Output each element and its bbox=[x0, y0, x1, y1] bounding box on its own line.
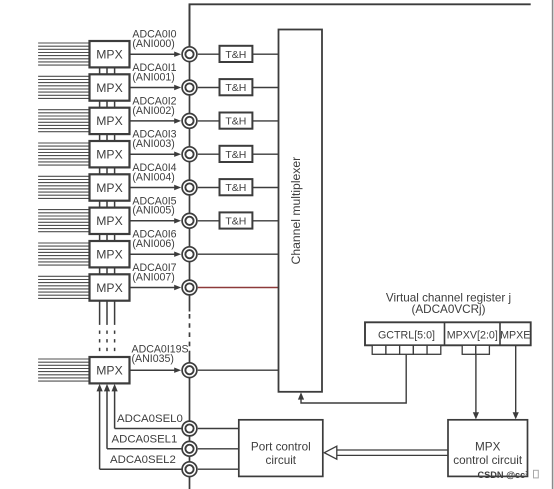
svg-text:MPX: MPX bbox=[96, 148, 122, 162]
label pin ADCA0I19S / ANI035 bbox=[132, 344, 189, 365]
svg-text:MPX: MPX bbox=[96, 181, 122, 195]
svg-text:circuit: circuit bbox=[266, 454, 297, 467]
wire pin ADCA0I19S to channel multiplexer bbox=[198, 369, 279, 371]
input line bundle for MPX 1 (8 analog inputs) bbox=[38, 43, 89, 65]
svg-text:ADCA0SEL0: ADCA0SEL0 bbox=[117, 413, 183, 425]
bus wires between MPX 5 and MPX 6 bbox=[100, 200, 115, 209]
svg-text:Channel multiplexer: Channel multiplexer bbox=[289, 157, 303, 265]
label pin ADCA0I5 / ANI005 bbox=[132, 195, 176, 216]
wire pin ADCA0I3 to T&H bbox=[198, 153, 220, 155]
pin ADCA0I5 (ANI005) bbox=[182, 213, 197, 228]
wire: pin column vertical net (lower section to bottom edge) bbox=[189, 352, 191, 489]
T&H block row 1 bbox=[220, 79, 253, 95]
svg-text:T&H: T&H bbox=[225, 182, 246, 194]
wire pin ADCA0SEL0 to port control circuit bbox=[198, 428, 239, 430]
MPX control circuit block bbox=[448, 420, 528, 477]
bit cells under GCTRL[5:0] bbox=[372, 345, 441, 354]
wire MPX 3 output to pin ADCA0I2 bbox=[129, 118, 182, 123]
MPX block 9 (input ANI035 group) bbox=[90, 357, 130, 383]
svg-text:T&H: T&H bbox=[225, 216, 246, 228]
wire: analog bus from pin column up and to the right edge bbox=[190, 4, 531, 54]
svg-text:MPX: MPX bbox=[96, 281, 122, 295]
wire ADCA0SEL2: from pin left to riser and up into MPX 9 bbox=[97, 384, 182, 469]
svg-text:(ANI035): (ANI035) bbox=[132, 353, 174, 365]
svg-text:MPX: MPX bbox=[96, 114, 122, 128]
T&H block row 2 bbox=[220, 113, 253, 129]
svg-text:(ANI006): (ANI006) bbox=[132, 238, 174, 250]
pin ADCA0I4 (ANI004) bbox=[182, 180, 197, 195]
MPX block 8 (inputs ANI007 group) bbox=[90, 274, 130, 300]
svg-text:(ANI001): (ANI001) bbox=[132, 71, 174, 83]
svg-text:CSDN @cc³: CSDN @cc³ bbox=[478, 470, 529, 480]
bus wires below MPX 8 (solid part) bbox=[100, 300, 115, 325]
wire MPX control circuit to port control circuit (open arrow) bbox=[324, 446, 448, 459]
svg-text:(ADCA0VCRj): (ADCA0VCRj) bbox=[411, 303, 485, 316]
svg-text:MPXV[2:0]: MPXV[2:0] bbox=[447, 329, 498, 341]
wire MPX 9 output to pin ADCA0I19S bbox=[129, 368, 182, 373]
wire pin ADCA0I0 to T&H bbox=[198, 53, 220, 55]
pin ADCA0I6 (ANI006) bbox=[182, 247, 197, 262]
MPX block 2 (inputs ANI001 group) bbox=[90, 74, 130, 100]
pin ADCA0SEL2 bbox=[182, 462, 197, 477]
svg-text:MPX: MPX bbox=[96, 214, 122, 228]
wire pin ADCA0SEL1 to port control circuit bbox=[198, 448, 239, 450]
bus wires between MPX 7 and MPX 8 bbox=[100, 266, 115, 275]
bus wires between MPX 4 and MPX 5 bbox=[100, 166, 115, 175]
wire MPXE to MPX control circuit bbox=[513, 345, 519, 419]
wire pin ADCA0I5 to T&H bbox=[198, 220, 220, 222]
wire ADCA0SEL0: from pin left to riser and up into MPX 9 bbox=[112, 384, 182, 429]
wire MPX 4 output to pin ADCA0I3 bbox=[129, 152, 182, 157]
input line bundle for MPX 2 (8 analog inputs) bbox=[38, 76, 89, 98]
input line bundle for MPX 7 (8 analog inputs) bbox=[38, 243, 89, 265]
svg-text:ADCA0SEL2: ADCA0SEL2 bbox=[110, 454, 176, 466]
channel multiplexer U-mux bbox=[279, 30, 323, 392]
wire MPX 2 output to pin ADCA0I1 bbox=[129, 85, 182, 90]
input line bundle for MPX 9 (8 analog inputs) bbox=[38, 359, 89, 381]
wire ADCA0SEL1: from pin left to riser and up into MPX 9 bbox=[104, 384, 182, 449]
label virtual channel register title bbox=[386, 292, 511, 317]
pin ADCA0I3 (ANI003) bbox=[182, 147, 197, 162]
wire: pin column vertical net (solid top section) bbox=[189, 4, 191, 311]
wire pin ADCA0I1 to T&H bbox=[198, 87, 220, 89]
wire MPX 6 output to pin ADCA0I5 bbox=[129, 218, 182, 223]
wire T&H to channel multiplexer (row 4) bbox=[252, 187, 278, 189]
svg-text:MPX: MPX bbox=[96, 81, 122, 95]
wire pin ADCA0SEL2 to port control circuit bbox=[198, 468, 239, 470]
pin ADCA0I1 (ANI001) bbox=[182, 80, 197, 95]
T&H block row 3 bbox=[220, 146, 253, 162]
pin ADCA0SEL0 bbox=[182, 421, 197, 436]
svg-text:(ANI004): (ANI004) bbox=[132, 171, 174, 183]
pin ADCA0I2 (ANI002) bbox=[182, 114, 197, 129]
bus wires between MPX 2 and MPX 3 bbox=[100, 100, 115, 109]
bus wires dashed section down to MPX 9 bbox=[100, 331, 115, 358]
svg-text:(ANI007): (ANI007) bbox=[132, 271, 174, 283]
wire T&H to channel multiplexer (row 0) bbox=[252, 53, 278, 55]
label pin ADCA0I4 / ANI004 bbox=[132, 162, 176, 183]
label pin ADCA0I2 / ANI002 bbox=[132, 95, 176, 116]
bit cells under MPXV[2:0] bbox=[462, 345, 489, 354]
input line bundle for MPX 3 (8 analog inputs) bbox=[38, 110, 89, 132]
svg-text:T&H: T&H bbox=[225, 116, 246, 128]
wire T&H to channel multiplexer (row 3) bbox=[252, 153, 278, 155]
wire MPX 1 output to pin ADCA0I0 bbox=[129, 52, 182, 57]
bus wires between MPX 6 and MPX 7 bbox=[100, 233, 115, 242]
wire: pin column dashed section between ANI007 and ANI035 bbox=[189, 314, 191, 352]
label pin ADCA0I1 / ANI001 bbox=[132, 62, 176, 83]
label pin ADCA0I3 / ANI003 bbox=[132, 129, 176, 150]
wire pin ADCA0I7 to channel multiplexer (dark red) bbox=[198, 287, 279, 289]
wire GCTRL to channel multiplexer select input bbox=[298, 354, 406, 403]
svg-text:MPX: MPX bbox=[96, 48, 122, 62]
bus wires between MPX 3 and MPX 4 bbox=[100, 133, 115, 142]
svg-text:T&H: T&H bbox=[225, 82, 246, 94]
wire T&H to channel multiplexer (row 5) bbox=[252, 220, 278, 222]
pin ADCA0I7 (ANI007) bbox=[182, 280, 197, 295]
svg-text:(ANI005): (ANI005) bbox=[132, 205, 174, 217]
pin ADCA0I19S (ANI035) bbox=[182, 363, 197, 378]
svg-text:(ANI002): (ANI002) bbox=[132, 105, 174, 117]
svg-text:MPX: MPX bbox=[475, 440, 501, 453]
MPX block 6 (inputs ANI005 group) bbox=[90, 208, 130, 234]
svg-text:(ANI000): (ANI000) bbox=[132, 38, 174, 50]
input line bundle for MPX 8 (8 analog inputs) bbox=[38, 276, 89, 298]
T&H block row 4 bbox=[220, 179, 253, 195]
label pin ADCA0I0 / ANI000 bbox=[132, 29, 176, 50]
input line bundle for MPX 6 (8 analog inputs) bbox=[38, 210, 89, 232]
svg-text:Port control: Port control bbox=[251, 440, 311, 453]
wire pin ADCA0I2 to T&H bbox=[198, 120, 220, 122]
wire pin ADCA0I4 to T&H bbox=[198, 187, 220, 189]
MPX block 7 (inputs ANI006 group) bbox=[90, 241, 130, 267]
port control circuit block bbox=[239, 420, 323, 477]
wire MPX 5 output to pin ADCA0I4 bbox=[129, 185, 182, 190]
svg-text:T&H: T&H bbox=[225, 149, 246, 161]
wire T&H to channel multiplexer (row 1) bbox=[252, 87, 278, 89]
T&H block row 5 bbox=[220, 212, 253, 228]
wire MPX 8 output to pin ADCA0I7 bbox=[129, 285, 182, 290]
svg-text:ADCA0SEL1: ADCA0SEL1 bbox=[112, 434, 178, 446]
pin ADCA0SEL1 bbox=[182, 441, 197, 456]
svg-text:MPX: MPX bbox=[96, 364, 122, 378]
wire pin ADCA0I6 to channel multiplexer bbox=[198, 253, 279, 255]
T&H block row 0 bbox=[220, 46, 253, 62]
svg-text:(ANI003): (ANI003) bbox=[132, 138, 174, 150]
MPX block 3 (inputs ANI002 group) bbox=[90, 108, 130, 134]
svg-text:control circuit: control circuit bbox=[453, 454, 523, 467]
pin ADCA0I0 (ANI000) bbox=[182, 47, 197, 62]
wire MPXV to MPX control circuit bbox=[473, 354, 479, 419]
svg-text:GCTRL[5:0]: GCTRL[5:0] bbox=[378, 329, 435, 341]
bus wires between MPX 1 and MPX 2 bbox=[100, 66, 115, 75]
register ADCA0VCRj box with fields bbox=[365, 322, 531, 345]
svg-text:T&H: T&H bbox=[225, 49, 246, 61]
MPX block 5 (inputs ANI004 group) bbox=[90, 174, 130, 200]
input line bundle for MPX 4 (8 analog inputs) bbox=[38, 143, 89, 165]
MPX block 1 (inputs ANI000 group) bbox=[90, 41, 130, 67]
svg-text:MPXE: MPXE bbox=[500, 329, 530, 341]
wire MPX 7 output to pin ADCA0I6 bbox=[129, 252, 182, 257]
page right border line bbox=[552, 0, 554, 489]
label pin ADCA0I6 / ANI006 bbox=[132, 229, 176, 250]
MPX block 4 (inputs ANI003 group) bbox=[90, 141, 130, 167]
label pin ADCA0I7 / ANI007 bbox=[132, 262, 176, 283]
svg-text:MPX: MPX bbox=[96, 248, 122, 262]
input line bundle for MPX 5 (8 analog inputs) bbox=[38, 176, 89, 198]
wire T&H to channel multiplexer (row 2) bbox=[252, 120, 278, 122]
